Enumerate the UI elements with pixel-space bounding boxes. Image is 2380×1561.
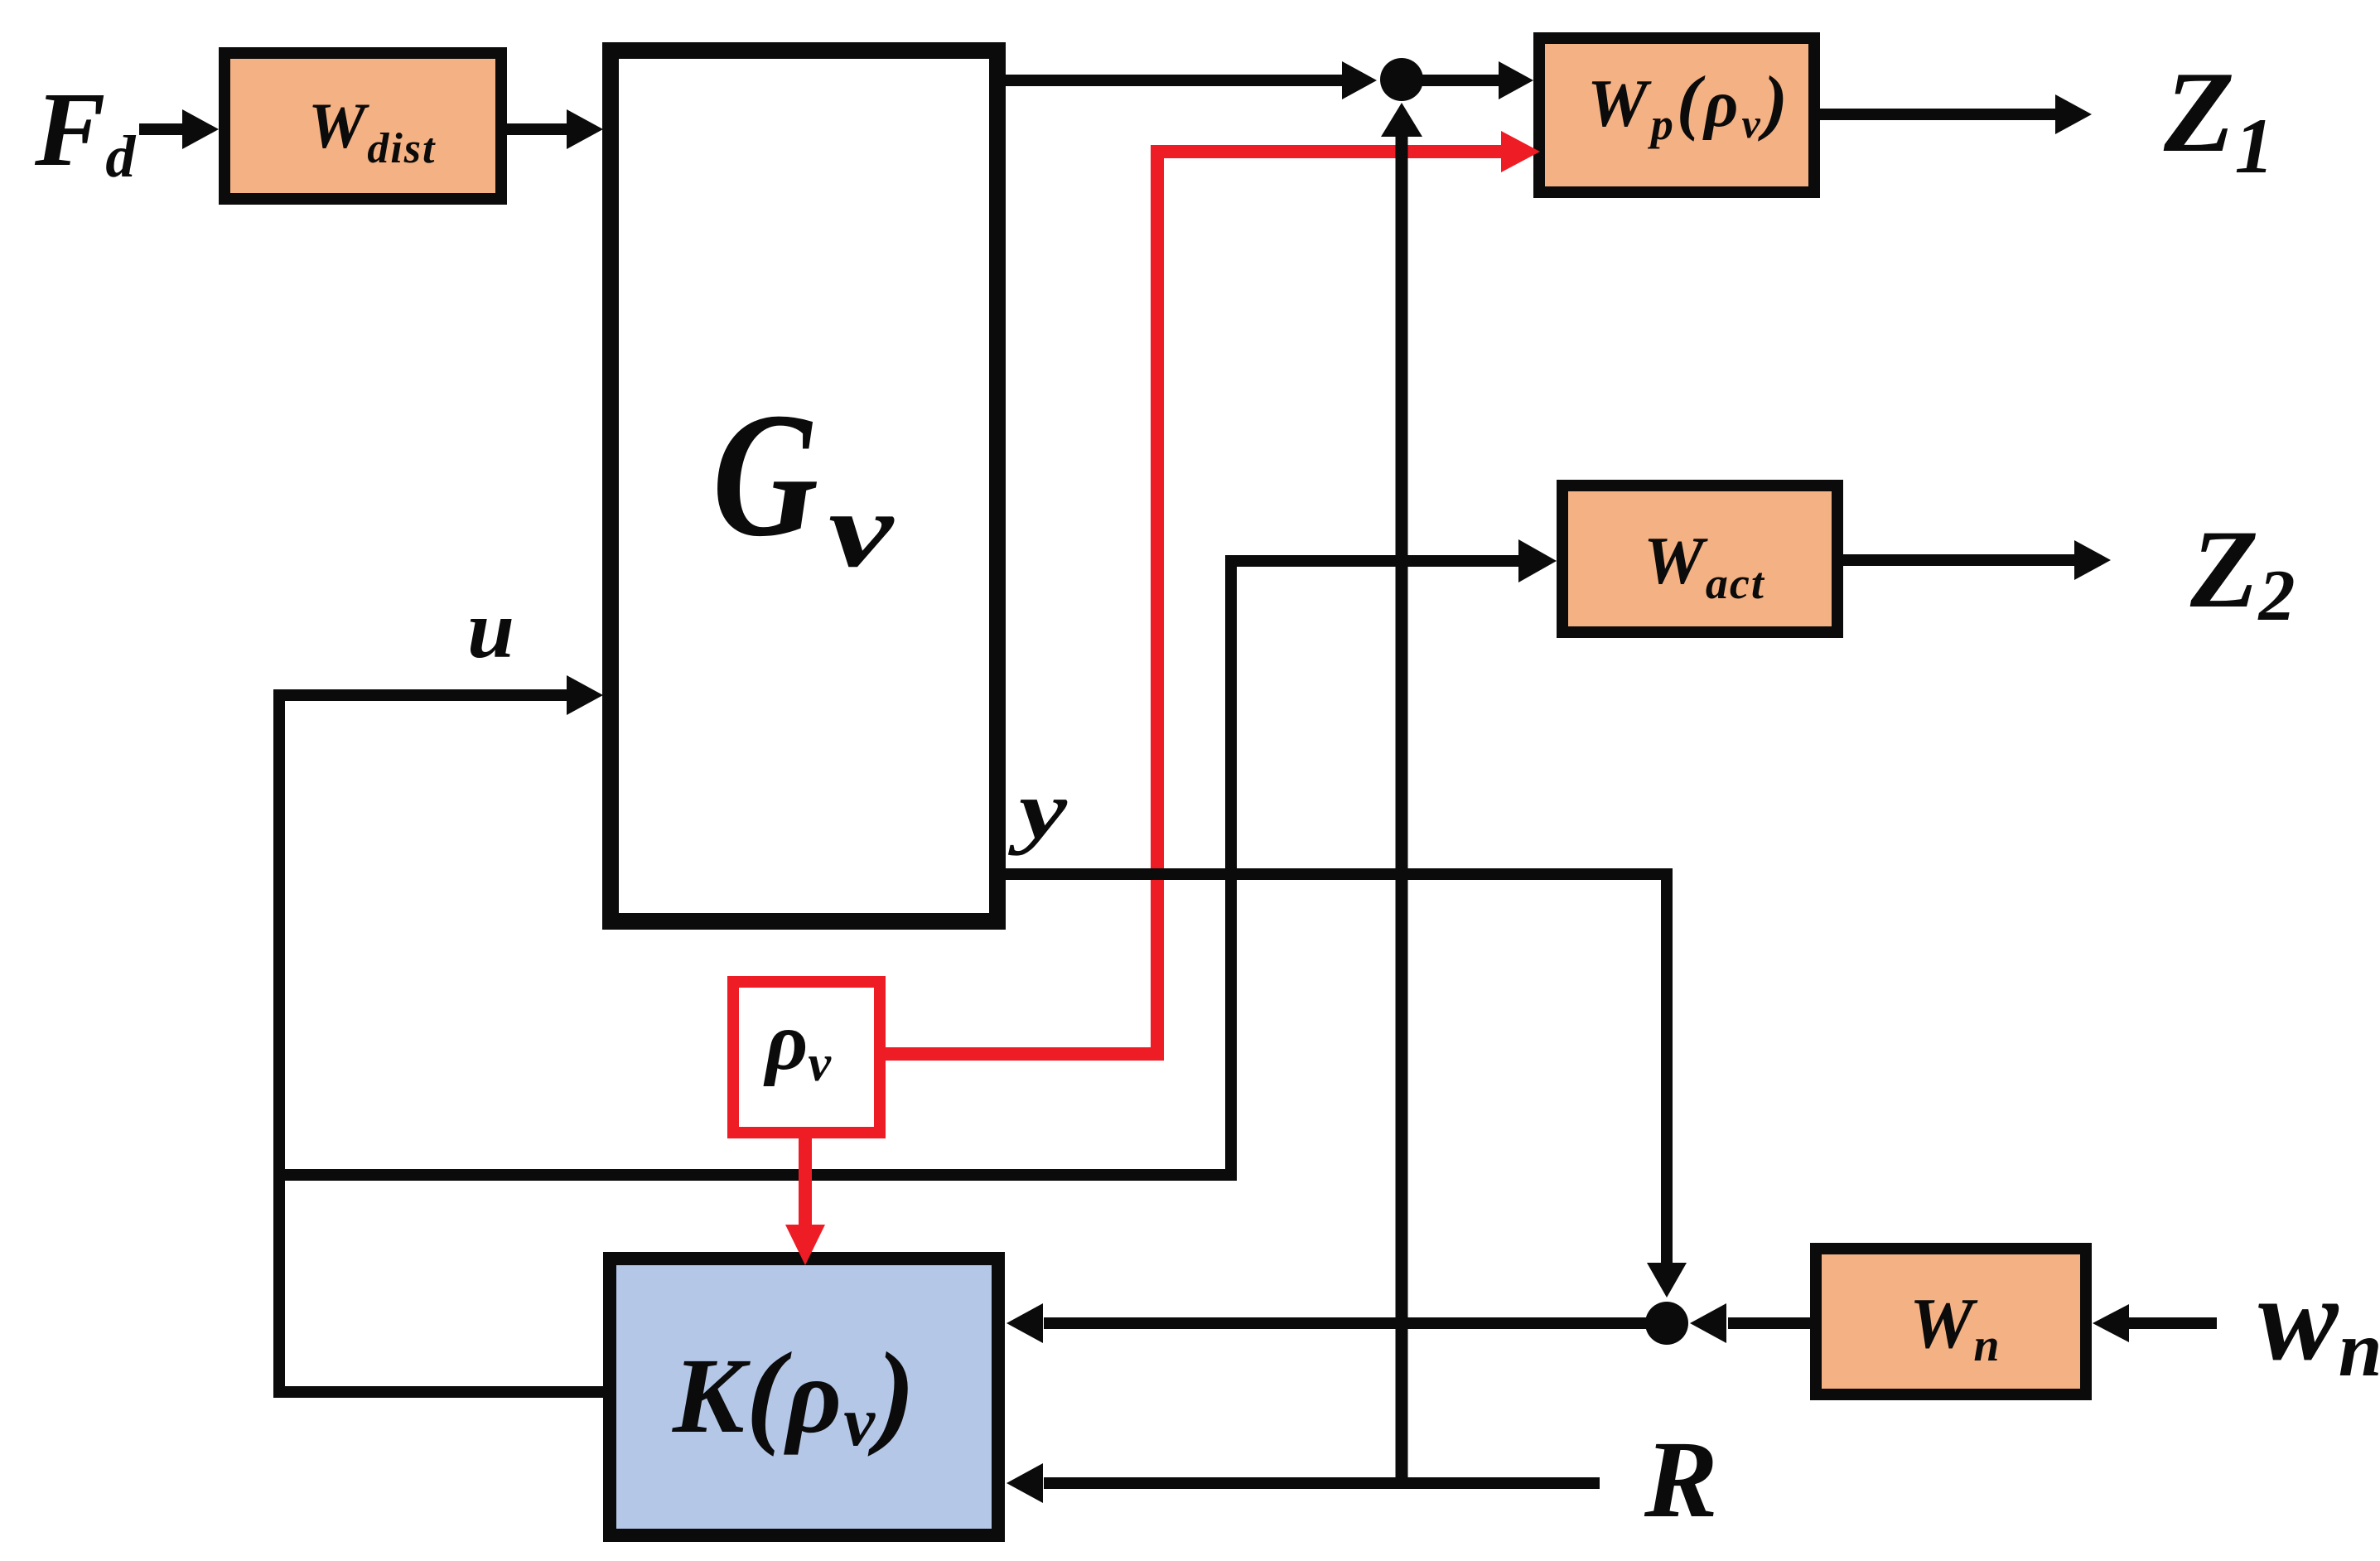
label u (467, 583, 514, 675)
wire y output to sum (1006, 874, 1687, 1298)
label Z_2 (2189, 508, 2295, 636)
block W_n (1816, 1249, 2086, 1394)
wire sum to K input (1007, 1303, 1647, 1343)
label y (1007, 764, 1068, 856)
svg-text:u: u (467, 583, 514, 675)
block W_p (1539, 38, 1814, 192)
block W_act (1562, 486, 1837, 632)
label W_p (1587, 62, 1791, 149)
label F_d (34, 70, 136, 190)
label w_n (2258, 1253, 2380, 1393)
block G_v plant (611, 51, 997, 921)
wire R riser vertical (1381, 103, 1422, 1483)
label Z_1 (2163, 48, 2274, 190)
wire W_n output to sum (1690, 1303, 1810, 1343)
node junction dot top (1380, 58, 1423, 101)
label W_act (1644, 523, 1765, 608)
svg-text:v: v (828, 471, 895, 590)
block K controller (610, 1259, 998, 1535)
label W_n (1909, 1283, 2000, 1371)
block W_dist (224, 53, 501, 199)
wire W_act output to Z_2 (1843, 540, 2111, 580)
wire u tap to W_act (273, 539, 1557, 1175)
wire R input to K (1007, 1463, 1600, 1503)
wire junction to W_p (1402, 61, 1533, 99)
wire rho_v down arrow to K (785, 1138, 825, 1265)
wire F_d input arrow (139, 109, 219, 149)
node sum junction dot (1645, 1302, 1688, 1345)
svg-text:G: G (712, 375, 818, 573)
label R (1644, 1418, 1718, 1540)
label W_dist (308, 89, 437, 172)
wire w_n input to W_n (2093, 1304, 2217, 1342)
label G_v (712, 375, 895, 590)
svg-text:K(ρv): K(ρv) (672, 1329, 917, 1461)
wire red arrowhead into W_p (1501, 131, 1540, 172)
svg-text:R: R (1644, 1418, 1718, 1540)
wire W_dist to G_v (507, 109, 603, 149)
wire u feedback K output to G_v input (279, 675, 610, 1392)
wire rho_v scheduling signal (red L-path to W_p) (880, 152, 1504, 1054)
block rho_v parameter (733, 982, 880, 1133)
wire W_p output to Z_1 (1820, 94, 2092, 134)
wire G_v top output to junction (1006, 61, 1377, 99)
label K (672, 1329, 917, 1461)
label rho_v (763, 995, 833, 1092)
